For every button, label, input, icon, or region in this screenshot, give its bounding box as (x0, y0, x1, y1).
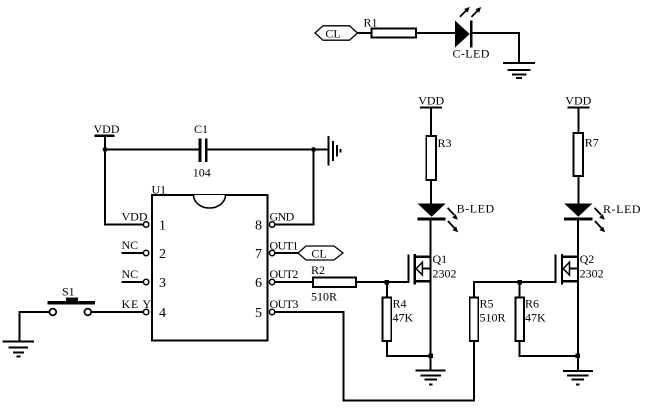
LED C-LED (453, 7, 490, 61)
wire U1 pin 6 to R2 (275, 281, 313, 283)
svg-text:S1: S1 (62, 285, 75, 299)
junction node R5/R6/gate (518, 280, 523, 285)
capacitor C1 104 (193, 122, 211, 180)
LED B-LED (418, 202, 495, 233)
junction node VDD/C1 (103, 147, 108, 152)
U1 pin 2 (NC) (122, 238, 167, 262)
svg-text:3: 3 (159, 276, 166, 291)
resistor R1 (364, 16, 417, 38)
resistor R4 47K (383, 282, 414, 341)
net label CL (top, to R1) (315, 26, 358, 41)
svg-text:KE Y: KE Y (122, 297, 152, 311)
svg-text:104: 104 (193, 165, 211, 179)
svg-text:OUT1: OUT1 (270, 239, 299, 253)
wire U1 pin 5 (OUT3) routed to R5 bottom (275, 312, 474, 400)
svg-text:2: 2 (159, 247, 166, 262)
svg-text:510R: 510R (311, 290, 337, 304)
svg-text:OUT2: OUT2 (270, 267, 299, 281)
svg-text:VDD: VDD (122, 210, 148, 224)
U1 pin 3 (NC) (122, 267, 167, 291)
svg-text:7: 7 (255, 247, 262, 262)
IC U1 body (152, 183, 268, 341)
wire R-LED cathode to Q2 drain (577, 220, 579, 257)
LED R-LED (564, 202, 641, 232)
power VDD (above R7) (565, 93, 591, 133)
junction node R6/source (576, 354, 581, 359)
svg-text:CL: CL (311, 247, 326, 261)
svg-text:8: 8 (255, 218, 262, 233)
svg-text:VDD: VDD (565, 93, 591, 107)
svg-text:U1: U1 (152, 183, 167, 197)
svg-text:6: 6 (255, 276, 262, 291)
svg-text:2302: 2302 (580, 267, 604, 281)
U1 pin 1 (VDD) (122, 210, 167, 234)
resistor R7 (573, 133, 598, 176)
junction node R4/source (429, 354, 434, 359)
svg-text:4: 4 (159, 306, 166, 321)
svg-text:VDD: VDD (418, 93, 444, 107)
U1 pin 4 (KEY) (122, 297, 167, 321)
svg-text:R1: R1 (364, 16, 378, 30)
U1 pin 6 (OUT2) (255, 267, 298, 291)
wire R5 top to Q2 gate (474, 282, 555, 298)
resistor R5 510R (470, 297, 506, 342)
svg-text:CL: CL (325, 27, 340, 41)
wire S1 left terminal to ground (20, 312, 50, 340)
ground (under Q2) (563, 371, 593, 385)
U1 pin 5 (OUT3) (255, 297, 298, 321)
ground (top right, C-LED) (503, 63, 535, 78)
svg-text:R7: R7 (585, 136, 599, 150)
U1 pin 8 (GND) (255, 210, 295, 234)
svg-text:R2: R2 (311, 263, 325, 277)
svg-text:R3: R3 (438, 136, 452, 150)
svg-text:2302: 2302 (433, 267, 457, 281)
wire S1 right terminal to U1 pin 4 (92, 311, 144, 313)
wire Q2 source to ground (577, 281, 579, 370)
wire C1 to right ground (208, 149, 328, 151)
transistor Q2 2302 (556, 252, 604, 284)
transistor Q1 2302 (409, 252, 457, 284)
svg-text:Q2: Q2 (580, 252, 595, 266)
svg-text:C-LED: C-LED (453, 47, 490, 61)
svg-text:NC: NC (122, 267, 139, 281)
svg-text:C1: C1 (194, 122, 208, 136)
junction node C1/GND-pin (311, 147, 316, 152)
svg-text:5: 5 (255, 306, 262, 321)
svg-text:47K: 47K (525, 311, 546, 325)
ground (under Q1) (416, 371, 446, 385)
svg-text:NC: NC (122, 238, 139, 252)
svg-text:R6: R6 (525, 297, 539, 311)
svg-text:R4: R4 (393, 297, 407, 311)
wire R4 bottom to Q1 source line (387, 341, 431, 356)
junction node R2/R4/gate (385, 280, 390, 285)
resistor R3 (426, 136, 451, 180)
power VDD (above R3) (418, 93, 444, 136)
svg-text:510R: 510R (480, 311, 506, 325)
wire CL flag to R1 (358, 32, 372, 34)
wire C-LED cathode to ground (473, 33, 520, 62)
svg-text:R5: R5 (480, 297, 494, 311)
wire B-LED cathode to Q1 drain (430, 220, 432, 257)
wire R6 bottom to Q2 source line (520, 341, 578, 356)
ground (right-facing, by C1) (328, 136, 340, 166)
power VDD (left) (94, 122, 120, 150)
wire U1 pin 7 to CL flag (275, 252, 298, 254)
svg-text:R-LED: R-LED (603, 202, 641, 216)
wire R3 to B-LED (430, 180, 432, 204)
wire R1 to C-LED anode (416, 32, 455, 34)
resistor R6 47K (515, 282, 546, 341)
wire R7 to R-LED (577, 176, 579, 204)
svg-text:Q1: Q1 (433, 252, 448, 266)
svg-text:B-LED: B-LED (457, 202, 495, 216)
svg-text:OUT3: OUT3 (270, 297, 299, 311)
ground (S1) (3, 341, 34, 356)
svg-text:1: 1 (159, 218, 166, 233)
resistor R2 510R (311, 263, 356, 304)
wire VDD junction down to U1 pin 1 (105, 150, 143, 225)
U1 pin 7 (OUT1) (255, 239, 298, 262)
pushbutton S1 (48, 285, 96, 316)
wire Q1 source to ground (430, 281, 432, 369)
wire C1 junction down to U1 pin 8 (275, 150, 314, 225)
wire R2 to Q1 gate (356, 281, 408, 283)
svg-text:GND: GND (270, 210, 295, 224)
wire VDD junction to C1 (105, 149, 199, 151)
svg-text:47K: 47K (393, 311, 414, 325)
net label CL (OUT1) (298, 246, 343, 261)
svg-text:VDD: VDD (94, 122, 120, 136)
